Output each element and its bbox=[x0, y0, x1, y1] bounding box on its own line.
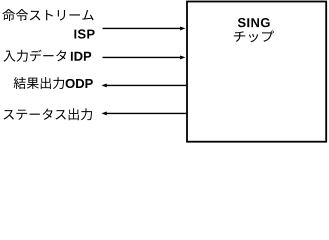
arrowhead out of chip (ODP output) bbox=[101, 83, 106, 87]
wire: IDP input line bbox=[103, 56, 182, 58]
label ISP bbox=[74, 29, 94, 38]
SING chip block bbox=[187, 2, 326, 142]
wire: ISP input line bbox=[103, 27, 182, 29]
wire: status output line bbox=[106, 112, 187, 114]
arrowhead out of chip (status output) bbox=[101, 111, 106, 115]
wire: ODP output line bbox=[106, 84, 187, 86]
label SING bbox=[238, 18, 270, 27]
arrowhead into chip (ISP input) bbox=[180, 26, 185, 30]
label ODP bbox=[66, 79, 93, 88]
label チップ (chip) bbox=[234, 31, 274, 43]
label IDP bbox=[71, 52, 91, 61]
label 結果出力 (result output) bbox=[14, 77, 65, 89]
label ステータス出力 (status output) bbox=[4, 108, 93, 120]
label 入力データ (input data) bbox=[3, 50, 66, 62]
label 命令ストリーム (instruction stream) bbox=[2, 9, 93, 21]
arrowhead into chip (IDP input) bbox=[180, 55, 185, 59]
